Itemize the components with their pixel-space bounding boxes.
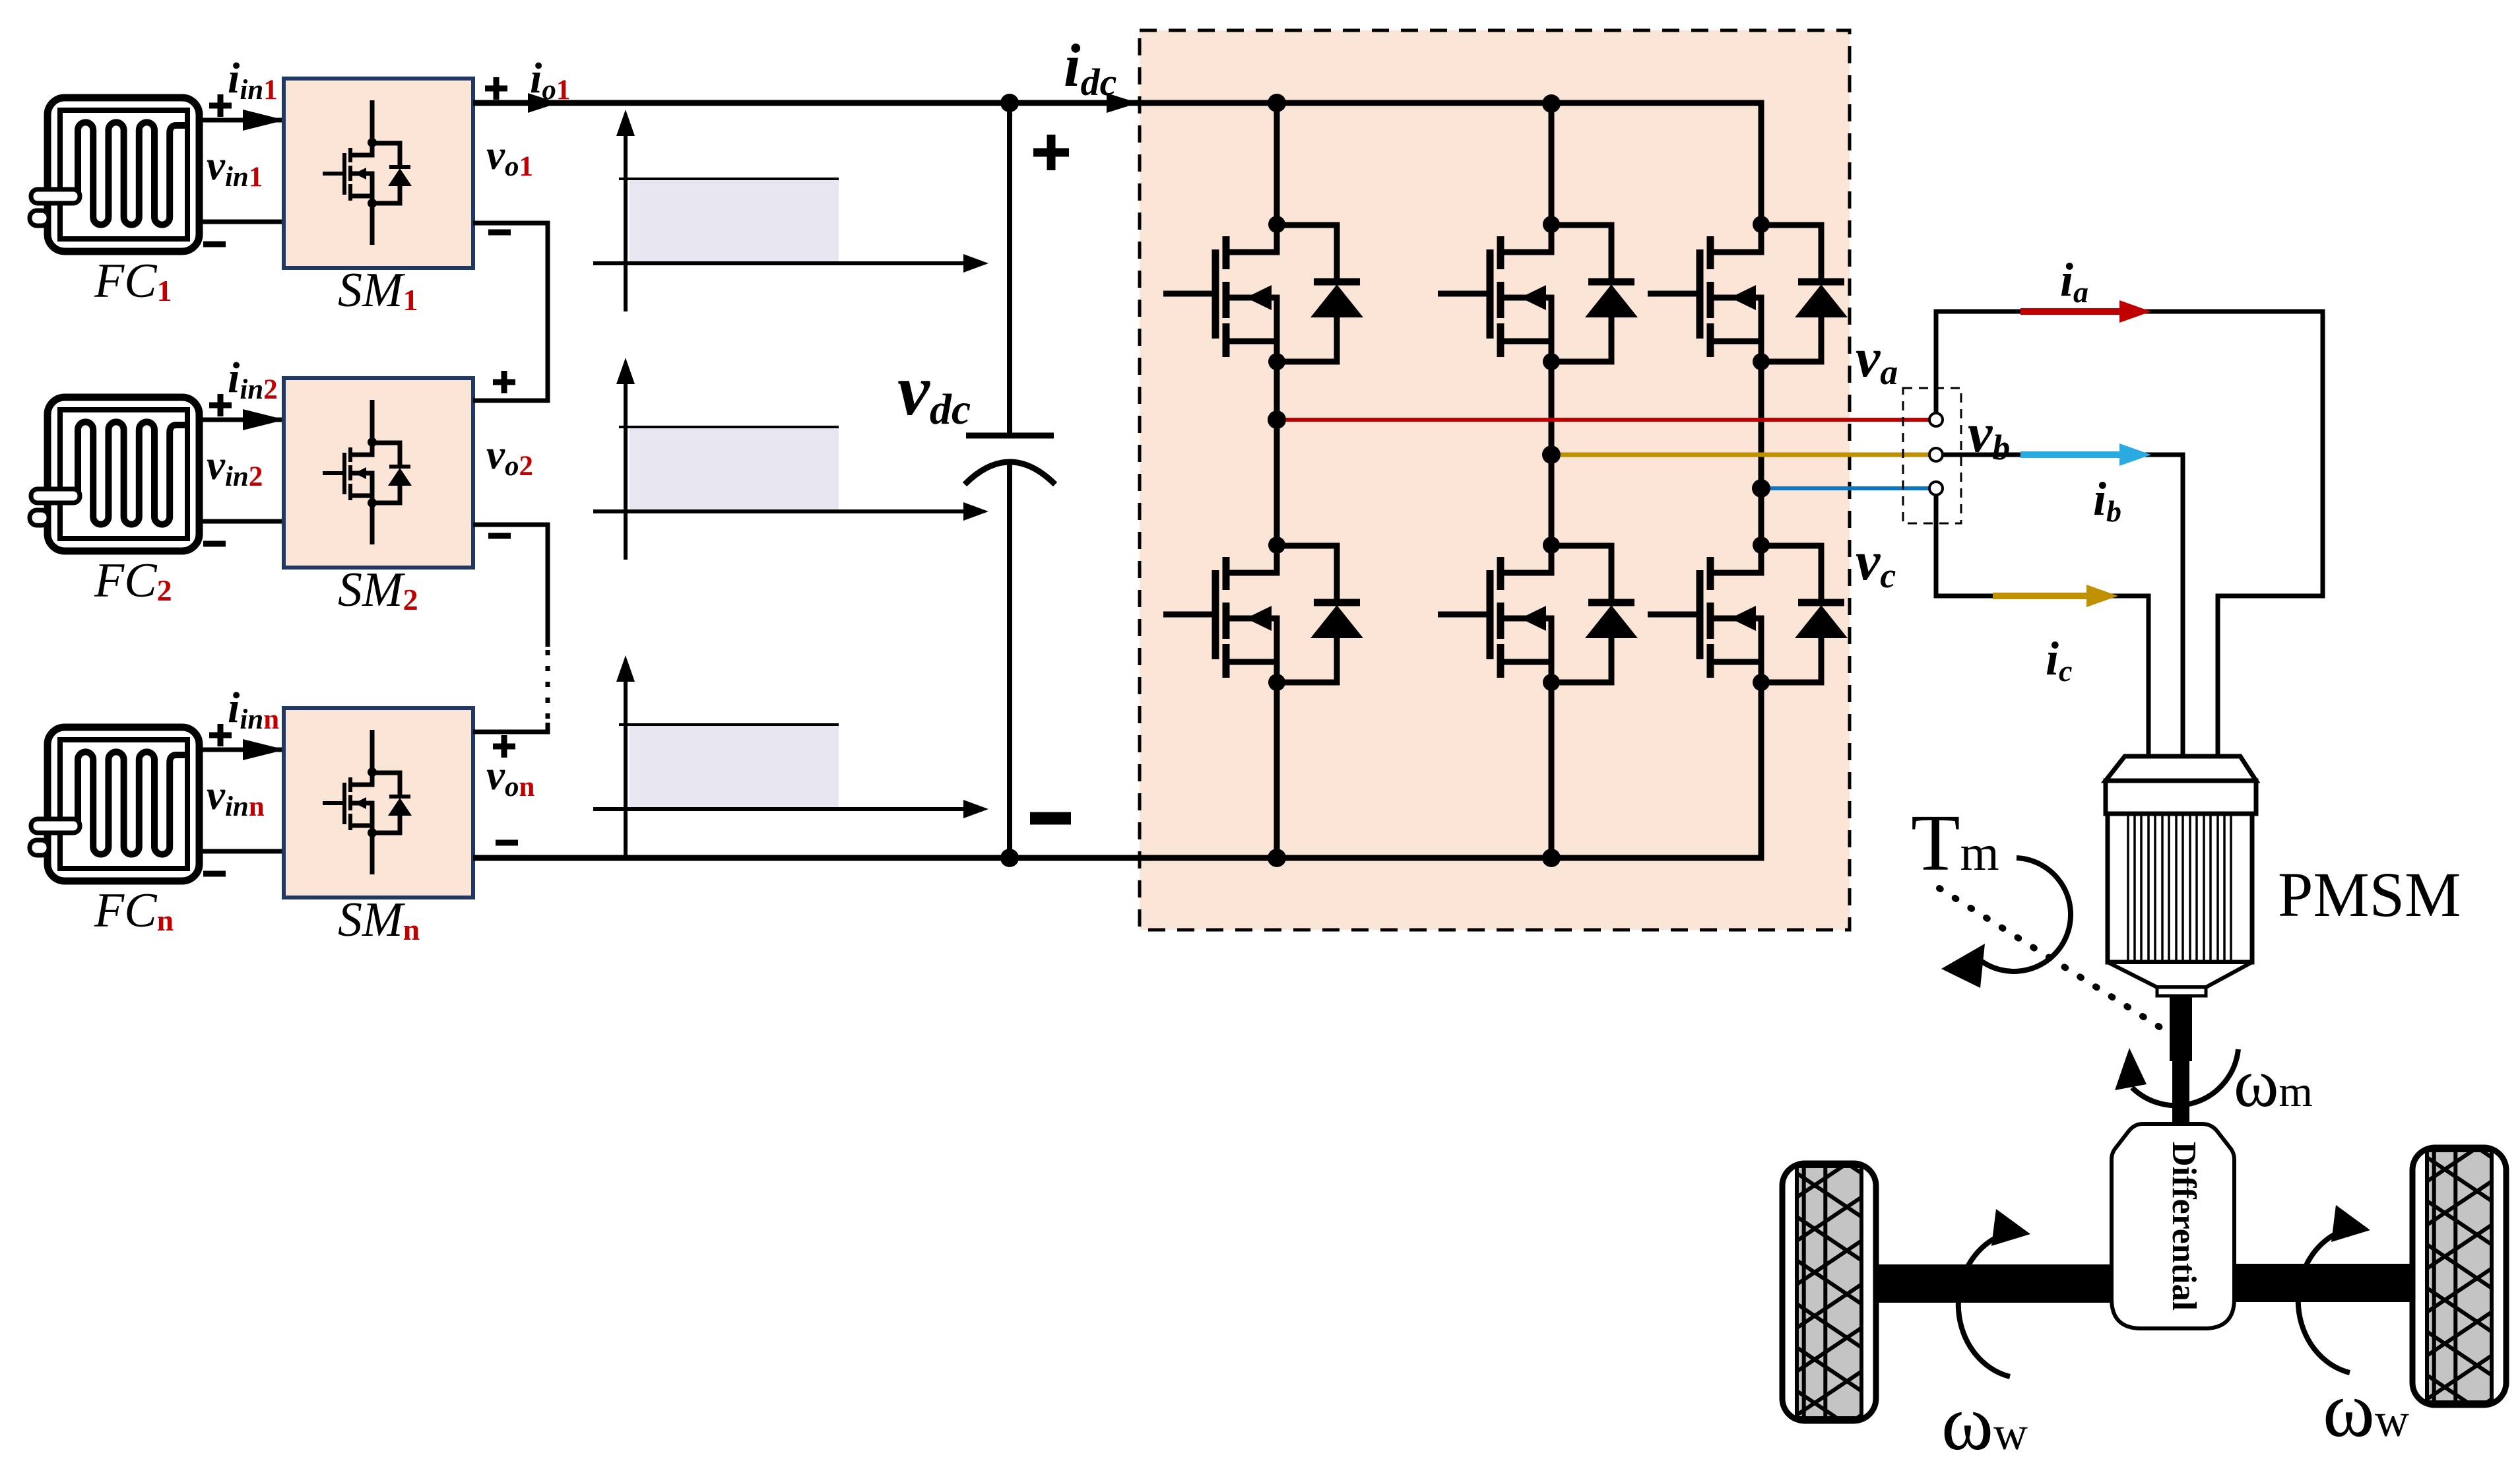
minus marker FC1 (203, 242, 226, 247)
omega m arrowhead (2115, 1048, 2147, 1090)
source module SM1 box (284, 79, 473, 268)
junction node bottom bus (1000, 849, 1019, 867)
MOSFET inside SM2 (323, 400, 412, 544)
wire leg1 source to bus (1274, 682, 1280, 858)
arrowhead iinn (243, 739, 285, 760)
waveform plot von (593, 655, 988, 857)
arrowhead iin1 (243, 110, 285, 131)
minus marker dc link (1030, 812, 1071, 825)
ia red arrow segment (2020, 308, 2121, 315)
plus marker SMn input (493, 735, 515, 758)
wire leg1 drain (1274, 103, 1280, 224)
ia red arrowhead (2119, 300, 2151, 323)
phase a red wire (1286, 418, 1929, 422)
minus marker vo1 (488, 230, 511, 236)
axle left (1874, 1264, 2112, 1303)
left axle arrowhead (1991, 1209, 2030, 1246)
junction node leg1 top (1268, 94, 1286, 112)
ic yellow arrowhead (2086, 585, 2118, 607)
wire leg2 source to bus (1549, 682, 1555, 858)
plus marker FC1 (209, 94, 232, 117)
node c mid junction (1752, 479, 1770, 498)
plus marker dc link (1033, 135, 1069, 170)
wire leg2 drain (1549, 104, 1555, 224)
MOSFET Q2 bottom leg1 (1163, 537, 1363, 691)
wire SM2- down to SMn+ (dashed middle) (473, 525, 548, 647)
plus marker io1 (485, 77, 507, 100)
node b mid junction (1542, 445, 1561, 464)
wire SM1- down to SM2+ (473, 223, 548, 401)
waveform plot vo2 (593, 358, 988, 560)
junction node leg2 bottom (1542, 849, 1561, 867)
wire FC2+ to SM2 (199, 418, 284, 422)
bottom bus inside inverter (1140, 682, 1761, 858)
MOSFET Q1 top leg1 (1163, 216, 1363, 370)
top DC bus io1 wire (473, 100, 1140, 106)
wire FC2- to SM2 (199, 519, 284, 524)
capacitor vdc curved plate (965, 462, 1055, 484)
ib blue arrow segment (2020, 451, 2121, 458)
wire FC1+ to SM1 (199, 118, 284, 123)
PMSM motor cap band (2106, 781, 2256, 814)
arrowhead io1 (528, 93, 558, 113)
terminal a circle (1929, 413, 1943, 426)
fuel cell FCn (30, 727, 199, 881)
minus marker FCn (203, 871, 226, 877)
junction node leg2 top (1542, 94, 1561, 113)
dashed terminal box (1903, 388, 1961, 523)
fuel cell FC1 (30, 98, 199, 251)
MOSFET Q5 top leg3 (1648, 216, 1848, 370)
motor shaft thick (2170, 996, 2192, 1061)
Tm arrowhead (1941, 944, 1985, 988)
MOSFET inside SMn (323, 730, 412, 874)
phase b yellow wire (1561, 453, 1929, 457)
node a mid junction (1268, 410, 1286, 429)
ic yellow arrow segment (1993, 593, 2088, 599)
DC link vertical wire (1007, 103, 1012, 436)
three-phase inverter dashed box (1140, 30, 1850, 930)
left axle rotation arrow (1958, 1236, 2010, 1377)
waveform plot vo1 (593, 110, 988, 311)
wheel right (2412, 1148, 2506, 1405)
PMSM motor ribs (2128, 814, 2231, 962)
wire FCn- to SMn (199, 849, 284, 854)
phase b wire to motor (1943, 455, 2183, 756)
junction node top bus (1000, 94, 1019, 112)
minus marker FC2 (203, 541, 226, 547)
svg-text:Differential: Differential (2165, 1142, 2203, 1311)
wire leg2 mid (1549, 362, 1555, 545)
minus marker von out (496, 840, 518, 846)
Tm torque arc arrow (1978, 858, 2071, 971)
PMSM motor top cap (2106, 756, 2256, 781)
MOSFET Q6 bottom leg3 (1648, 537, 1848, 691)
junction node leg1 bottom (1268, 849, 1286, 867)
differential housing (2112, 1124, 2234, 1328)
MOSFET inside SM1 (323, 100, 412, 245)
phase c blue wire (1770, 486, 1929, 490)
bottom DC bus wire (473, 855, 1140, 861)
MOSFET Q4 bottom leg2 (1438, 537, 1638, 691)
phase a wire to motor (1936, 311, 2323, 756)
source module SMn box (284, 708, 473, 898)
wire leg1 mid (1274, 362, 1280, 545)
axle right (2234, 1264, 2412, 1302)
Tm dashed axis line (1939, 888, 2166, 1031)
right axle arrowhead (2331, 1205, 2370, 1242)
terminal b circle (1929, 448, 1943, 461)
plus marker SM2 input (493, 371, 515, 393)
MOSFET Q3 top leg2 (1438, 216, 1638, 370)
fuel cell FC2 (30, 397, 199, 551)
phase c wire to motor (1936, 495, 2148, 756)
top bus inside inverter (1140, 103, 1761, 224)
wire FC1- to SM1 (199, 220, 284, 224)
PMSM motor bottom taper (2108, 962, 2252, 987)
plus marker FCn (209, 724, 232, 746)
wire FCn+ to SMn (199, 748, 284, 752)
arrowhead idc (1107, 93, 1138, 113)
omega m arc arrow (2132, 1049, 2238, 1105)
PMSM motor collar (2157, 987, 2206, 996)
arrowhead iin2 (243, 409, 285, 430)
PMSM motor body (2108, 814, 2252, 962)
wire leg3 mid (1759, 362, 1764, 545)
wheel left (1782, 1163, 1876, 1421)
right axle rotation arrow (2298, 1232, 2350, 1373)
motor shaft thin (2172, 1061, 2189, 1127)
minus marker vo2 (488, 533, 511, 539)
plus marker FC2 (209, 394, 232, 416)
capacitor vdc top plate (966, 433, 1054, 439)
terminal c circle (1929, 482, 1943, 495)
svg-text:PMSM: PMSM (2278, 859, 2461, 930)
ib blue arrowhead (2119, 443, 2151, 466)
source module SM2 box (284, 378, 473, 568)
wire capacitor to bottom bus (1007, 464, 1012, 858)
